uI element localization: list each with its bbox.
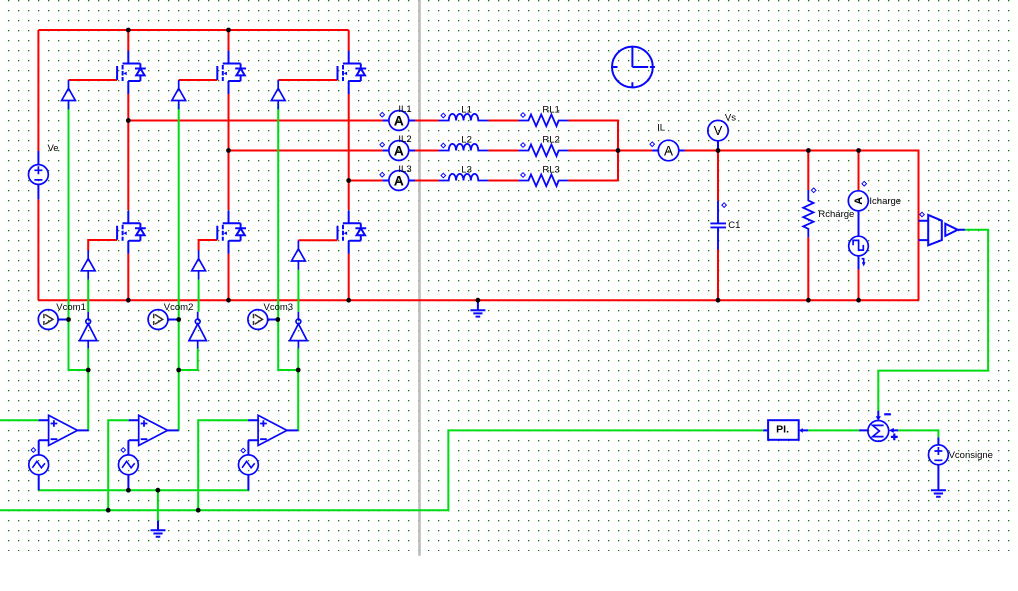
wire L2 to RL2 [488,150,518,152]
wire source Q5 to bottom rail [228,254,230,301]
node bottom rail Icharge [856,298,861,303]
voltage source Vconsigne [929,437,949,490]
svg-text:A: A [664,144,673,159]
ground Vconsigne [931,490,946,496]
wire comparator2 plus input [108,420,129,510]
node phase C output [346,178,351,183]
node probe 3 [275,317,280,322]
node Icharge top [856,148,861,153]
op-amp comparator A1 [39,415,89,445]
voltage probe Vcom3 [248,310,278,330]
wire gate Q1 [69,79,118,81]
wire gate Q2 [179,79,218,81]
wire sum to PI [808,429,859,431]
node link 2 [176,368,181,373]
node link 1 [86,368,91,373]
node bottom rail C [346,298,351,303]
wire sources bottom bus [39,489,249,491]
wire comparator3 output riser [297,349,299,431]
wire comparator1 plus input [0,419,39,421]
svg-text:IL2: IL2 [398,134,411,145]
wire ground tap [157,490,159,521]
svg-text:IL: IL [657,123,665,134]
wire Ve bottom vertical [37,199,39,300]
svg-text:L1: L1 [461,105,472,116]
node bottom rail B [226,298,231,303]
polarity marker L1 [441,113,446,118]
svg-text:Vcom1: Vcom1 [56,302,86,313]
node bottom rail C1 [716,298,721,303]
square wave current source [849,236,869,269]
node probe 1 [66,317,71,322]
mosfet Q3 [338,51,367,94]
current probe Icharge [848,191,868,211]
triangle wave source V1 [29,455,49,475]
wire Vconsigne to sum [898,430,938,437]
svg-text:IL1: IL1 [398,104,411,115]
wire comparator1 minus to source [38,440,40,455]
not gate U3 [290,312,307,349]
node probe 2 [176,317,181,322]
wire Icharge top [858,151,860,192]
voltage sensor VSEN1 [919,215,965,245]
ammeter IL3 [383,171,415,191]
gating block G5 [192,250,206,279]
inductor L1 [439,114,489,121]
svg-text:RL2: RL2 [542,135,559,146]
wire gate Q4 [88,240,117,251]
wire C1 bottom [717,250,719,301]
resistor Rcharge [803,190,813,237]
wire gating 6 to not3 [297,270,299,312]
mosfet Q5 [217,211,246,254]
wire gating 3 down to link [278,104,298,371]
ground at bottom rail [470,300,485,316]
wire IL1 to L1 [415,120,439,122]
wire source Q6 to bottom rail [348,254,350,301]
inductor L2 [439,144,489,151]
svg-text:Vs: Vs [725,113,736,124]
svg-text:Icharge: Icharge [869,196,901,207]
wire phase B column [228,94,230,210]
wire L1 to RL1 [488,120,518,122]
wire RL1 to summing node [568,121,618,181]
page boundary gray line [418,0,421,556]
PI block [763,420,808,440]
svg-text:PI.: PI. [776,424,789,436]
capacitor C1 [710,201,726,250]
polarity marker Icharge [862,181,867,186]
wire phase C output row [349,180,383,182]
node bottom rail ground [476,298,481,303]
voltmeter Vs [708,120,728,150]
wire gating 4 to not1 [87,280,89,312]
ammeter IL1 [383,111,415,131]
ammeter IL2 [383,141,415,161]
node phase B output [226,148,231,153]
wire phase A output row [128,120,382,122]
summing block [859,411,898,441]
svg-text:C1: C1 [728,220,740,231]
mosfet Q1 [117,51,146,94]
polarity marker IL3 [380,172,385,177]
svg-text:V: V [714,123,723,138]
svg-text:Vcom2: Vcom2 [164,302,194,313]
polarity marker RL3 [521,173,526,178]
svg-text:A: A [853,197,865,205]
svg-text:RL3: RL3 [542,165,559,176]
wire gate Q6 [298,239,337,241]
wire comparator3 plus input [198,420,248,510]
wire L3 to RL3 [488,180,518,182]
wire RL3 to summing node [568,180,618,182]
mosfet Q4 [117,211,146,254]
node bottom rail A [126,298,131,303]
wire phase A column [127,94,129,210]
gating block G3 [271,80,285,109]
polarity marker sensor [920,212,925,217]
wire not2 branch [179,349,198,371]
not gate U2 [189,312,206,349]
voltage probe Vcom1 [38,310,68,330]
wire gating 5 to not2 [198,280,200,312]
wire gate Q5 [199,240,218,251]
node phase A output [126,118,131,123]
wire source1 bottom lead [38,475,40,491]
wire gating 2 down to comparator2 output [178,104,180,431]
triangle wave source V2 [118,455,138,475]
wire IL2 to L2 [415,150,439,152]
polarity marker C1 [722,203,727,208]
node bottom rail Rcharge [806,298,811,303]
node Rcharge top [806,148,811,153]
resistor RL3 [519,175,569,187]
wire node to IL ammeter [618,150,652,152]
polarity marker Rcharge [811,188,816,193]
ground control bus [151,521,166,537]
wire RL2 to summing node [568,150,618,152]
op-amp comparator A3 [248,415,298,445]
wire sensor to sum [878,230,988,411]
node control bus comp3 [196,508,201,513]
triangle wave source V3 [239,455,259,475]
wire Vs/C1 column top [717,151,719,201]
svg-text:Vconsigne: Vconsigne [949,450,993,461]
polarity marker source1 [31,448,36,453]
wire Rcharge bottom [807,237,809,300]
gating block G4 [81,250,95,279]
polarity marker source2 [121,448,126,453]
wire source2 bottom lead [127,475,129,491]
mosfet Q6 [338,211,367,254]
wire long control bus to PI [0,430,763,510]
polarity marker IL [650,142,655,147]
node RL join [616,148,621,153]
wire Rcharge top [807,151,809,191]
not gate U1 [80,312,97,349]
wire bottom rail [38,299,918,301]
wire Ve top vertical [37,30,39,151]
node control bus comp2 [106,508,111,513]
wire Icharge bottom [858,269,860,300]
svg-text:RL1: RL1 [542,105,559,116]
svg-text:Rcharge: Rcharge [818,209,854,220]
gating block G1 [62,80,76,109]
wire IL to output rail and down right side [685,151,919,301]
wire phase B output row [229,150,383,152]
wire source Q4 to bottom rail [127,254,129,301]
wire Icharge to square source [858,211,860,237]
node source bus 2 [126,488,131,493]
wire gate Q3 [278,79,337,81]
gating block G2 [172,80,186,109]
gating block G6 [292,240,306,269]
wire top rail [38,29,348,31]
mosfet Q2 [217,51,246,94]
wire comparator3 minus to source [247,440,249,455]
node top rail B [226,28,231,33]
polarity marker source3 [241,448,246,453]
polarity marker IL1 [380,112,385,117]
node Vs C1 [716,148,721,153]
node top rail A [126,28,131,33]
svg-text:Vcom3: Vcom3 [264,302,294,313]
resistor RL2 [519,145,569,157]
polarity marker L3 [441,173,446,178]
polarity marker L2 [441,143,446,148]
inductor L3 [439,174,489,181]
wire comparator1 output riser [87,349,89,431]
wire drain Q1 [127,30,129,51]
wire drain Q2 [228,30,230,51]
clock [612,47,655,88]
wire gating 1 down to probe node and link [69,104,89,371]
polarity marker RL2 [521,143,526,148]
polarity marker RL1 [521,113,526,118]
wire phase C column [348,94,350,210]
wire comparator2 minus to source [127,440,129,455]
op-amp comparator A2 [129,415,179,445]
wire source3 bottom lead [247,475,249,491]
svg-text:IL3: IL3 [398,164,411,175]
polarity marker IL2 [380,142,385,147]
svg-text:L2: L2 [461,135,472,146]
resistor RL1 [519,115,569,127]
node link 3 [296,368,301,373]
svg-text:Ve: Ve [48,143,59,154]
ammeter IL [652,140,685,161]
voltage source Ve [29,151,49,199]
wire drain Q3 [348,30,350,51]
voltage probe Vcom2 [148,310,178,330]
wire IL3 to L3 [415,180,439,182]
node source bus ground [156,488,161,493]
svg-text:L3: L3 [461,165,472,176]
